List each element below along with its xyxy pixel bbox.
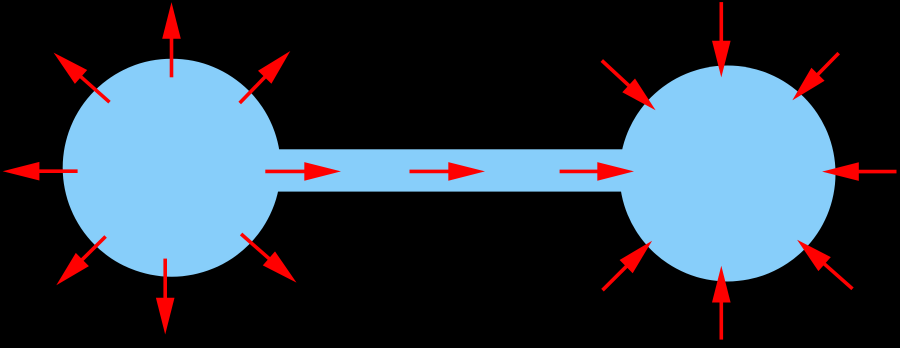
flow arrow 2 (middle of tube) bbox=[410, 162, 486, 181]
right inward arrow from S bbox=[712, 266, 731, 340]
right inward arrow from N bbox=[712, 2, 731, 77]
left outward arrow N bbox=[162, 2, 181, 77]
left outward arrow NE bbox=[240, 51, 291, 103]
flow arrow 1 (leaving left bulb) bbox=[265, 162, 341, 181]
left outward arrow S bbox=[156, 259, 175, 335]
left outward arrow SW bbox=[56, 237, 105, 286]
right inward arrow from E bbox=[822, 162, 896, 181]
right inward arrow from SE bbox=[797, 240, 852, 289]
left outward arrow NW bbox=[54, 53, 110, 103]
right inward arrow from SW bbox=[603, 241, 653, 291]
flow arrow 3 (entering right bulb) bbox=[560, 162, 634, 181]
left bulb (high pressure sphere) bbox=[63, 59, 281, 277]
right inward arrow from NE bbox=[792, 53, 838, 100]
connecting tube bbox=[171, 149, 728, 191]
right bulb (low pressure sphere) bbox=[620, 66, 836, 282]
left outward arrow W bbox=[3, 162, 78, 181]
right inward arrow from NW bbox=[602, 61, 656, 111]
left outward arrow SE bbox=[241, 234, 296, 283]
